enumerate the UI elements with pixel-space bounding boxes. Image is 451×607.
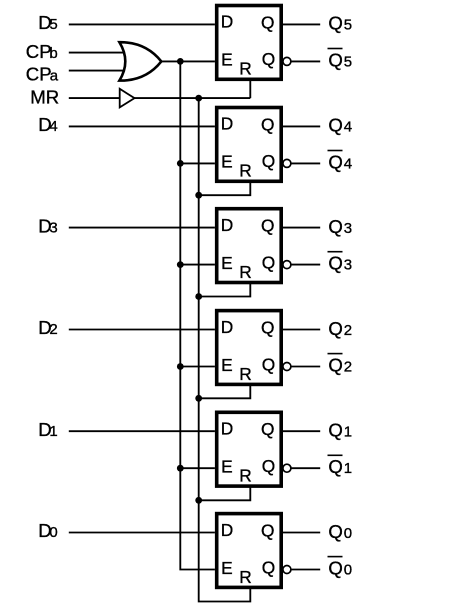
svg-text:Q: Q <box>328 115 342 136</box>
svg-text:0: 0 <box>344 525 352 542</box>
svg-text:CP: CP <box>26 41 52 62</box>
svg-text:D: D <box>221 12 233 32</box>
svg-text:2: 2 <box>49 321 57 338</box>
svg-text:E: E <box>221 50 233 70</box>
svg-text:1: 1 <box>344 460 352 477</box>
svg-text:Q: Q <box>328 558 342 579</box>
svg-text:Q: Q <box>328 253 342 274</box>
svg-text:2: 2 <box>344 359 352 376</box>
svg-text:Q: Q <box>328 216 342 237</box>
svg-text:2: 2 <box>344 322 352 339</box>
svg-text:R: R <box>239 364 251 384</box>
svg-text:Q: Q <box>328 151 342 172</box>
svg-text:Q: Q <box>328 420 342 441</box>
svg-text:MR: MR <box>30 87 59 108</box>
svg-text:0: 0 <box>344 562 352 579</box>
svg-text:E: E <box>221 355 233 375</box>
svg-text:Q: Q <box>262 49 275 69</box>
svg-text:E: E <box>221 253 233 273</box>
svg-text:5: 5 <box>344 17 352 34</box>
svg-text:CP: CP <box>26 63 52 84</box>
svg-text:Q: Q <box>261 114 274 134</box>
svg-text:1: 1 <box>344 424 352 441</box>
svg-text:D: D <box>221 215 233 235</box>
svg-text:4: 4 <box>344 155 352 172</box>
svg-text:3: 3 <box>344 220 352 237</box>
svg-text:5: 5 <box>49 16 57 33</box>
svg-text:D: D <box>221 520 233 540</box>
svg-text:Q: Q <box>262 456 275 476</box>
svg-text:R: R <box>239 466 251 486</box>
svg-text:Q: Q <box>328 355 342 376</box>
svg-text:Q: Q <box>262 151 275 171</box>
svg-text:b: b <box>49 45 57 62</box>
svg-text:Q: Q <box>262 354 275 374</box>
svg-text:R: R <box>239 59 251 79</box>
svg-text:Q: Q <box>261 317 274 337</box>
svg-text:D: D <box>221 419 233 439</box>
svg-text:Q: Q <box>262 252 275 272</box>
svg-text:Q: Q <box>328 49 342 70</box>
svg-text:Q: Q <box>328 521 342 542</box>
svg-text:R: R <box>239 161 251 181</box>
svg-text:3: 3 <box>49 219 57 236</box>
svg-text:R: R <box>239 262 251 282</box>
svg-text:R: R <box>239 567 251 587</box>
svg-text:1: 1 <box>49 423 57 440</box>
svg-text:D: D <box>221 317 233 337</box>
svg-text:Q: Q <box>328 456 342 477</box>
svg-text:Q: Q <box>262 557 275 577</box>
svg-text:4: 4 <box>344 119 352 136</box>
svg-text:0: 0 <box>49 524 57 541</box>
svg-text:5: 5 <box>344 53 352 70</box>
svg-text:a: a <box>50 67 59 84</box>
svg-text:Q: Q <box>261 216 274 236</box>
svg-text:D: D <box>221 114 233 134</box>
svg-text:E: E <box>221 558 233 578</box>
svg-text:Q: Q <box>328 13 342 34</box>
svg-text:Q: Q <box>261 12 274 32</box>
svg-text:3: 3 <box>344 257 352 274</box>
svg-text:Q: Q <box>261 520 274 540</box>
svg-text:Q: Q <box>328 318 342 339</box>
svg-text:E: E <box>221 152 233 172</box>
svg-text:Q: Q <box>261 419 274 439</box>
svg-text:4: 4 <box>49 118 57 135</box>
svg-text:E: E <box>221 457 233 477</box>
